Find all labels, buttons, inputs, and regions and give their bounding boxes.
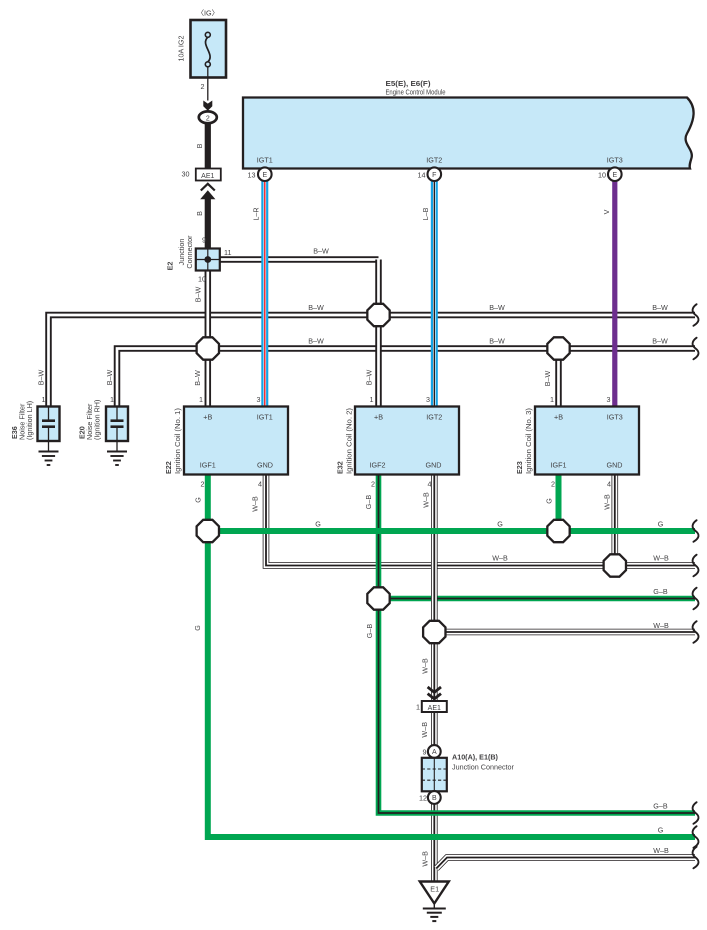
label IGT3 in ECM	[607, 156, 623, 165]
wire L-B from ECM IGT2 to coil	[431, 181, 438, 407]
svg-text:B–W: B–W	[37, 369, 46, 385]
label G row a	[315, 520, 321, 529]
svg-text:A: A	[432, 749, 437, 756]
label IGT3 of E23	[607, 413, 623, 422]
noise filter E20 (Ignition RH)	[106, 407, 128, 466]
junction node on G-B row	[367, 587, 389, 609]
label E1	[430, 885, 439, 894]
junction node on G row at E23 branch	[547, 520, 569, 542]
svg-text:G: G	[545, 498, 554, 504]
svg-text:13: 13	[248, 171, 256, 180]
continuation mark W-B bottom	[693, 847, 699, 869]
wire W-B from E22 GND to continuation right	[266, 475, 695, 566]
label +B of E32	[374, 413, 383, 422]
label B-W row1 b	[489, 303, 505, 312]
pin circle A	[428, 745, 441, 758]
svg-text:G–B: G–B	[364, 495, 373, 510]
label B-W below E2	[194, 286, 203, 302]
svg-text:E2: E2	[166, 262, 175, 271]
svg-text:4: 4	[258, 480, 262, 489]
label pin 9 of E2	[202, 236, 206, 245]
label pin3 E23	[607, 395, 611, 404]
svg-text:9: 9	[423, 748, 427, 757]
label L-R	[252, 207, 261, 220]
junction node on G row at E22 branch	[197, 520, 219, 542]
svg-text:W–B: W–B	[492, 554, 508, 563]
svg-text:9: 9	[202, 236, 206, 245]
svg-text:E1: E1	[430, 885, 439, 894]
label (IG)	[197, 9, 219, 18]
arrow below fuse	[203, 101, 212, 111]
pin circle B	[428, 791, 441, 804]
label B-W pin11 row	[313, 247, 329, 256]
svg-text:B–W: B–W	[652, 337, 668, 346]
label Engine Control Module	[386, 88, 446, 97]
label A10(A), E1(B)	[452, 753, 499, 762]
pin 13 E of ECM	[248, 167, 272, 181]
svg-text:14: 14	[418, 171, 426, 180]
ground E1	[420, 882, 449, 922]
label Ignition Coil No3	[524, 408, 533, 474]
label W-B bottom	[653, 846, 669, 855]
wire B-W junction down to E32 +B	[375, 260, 382, 407]
svg-text:+B: +B	[203, 413, 212, 422]
svg-text:G: G	[315, 520, 321, 529]
svg-text:IGT2: IGT2	[426, 156, 442, 165]
label E23	[515, 461, 524, 474]
wire W-B bottom branch merging into stem	[436, 858, 695, 869]
svg-text:B–W: B–W	[308, 303, 324, 312]
label pin1 E32	[370, 395, 374, 404]
label pin 1 of E20	[110, 395, 114, 404]
svg-text:B: B	[195, 211, 204, 216]
svg-text:IGF1: IGF1	[551, 461, 567, 470]
label pin1 E23	[550, 395, 554, 404]
label G row c	[658, 520, 664, 529]
label V	[602, 209, 611, 214]
svg-text:G: G	[193, 625, 202, 631]
svg-text:B–W: B–W	[105, 369, 114, 385]
svg-text:+B: +B	[374, 413, 383, 422]
label pin2 E32	[371, 480, 375, 489]
label Connector	[185, 235, 194, 269]
label G-B bottom	[653, 802, 668, 811]
label IGF2 of E32	[370, 461, 386, 470]
continuation mark W-B row2	[693, 621, 699, 643]
svg-text:G: G	[658, 826, 664, 835]
svg-text:E22: E22	[164, 461, 173, 474]
ECM E5(E) E6(F) Engine Control Module	[243, 98, 694, 169]
continuation mark G bottom	[693, 826, 699, 848]
svg-text:4: 4	[607, 480, 611, 489]
svg-text:G: G	[658, 520, 664, 529]
wire B-W E2 pin 10 down to E22 +B	[205, 271, 212, 407]
svg-text:B–W: B–W	[489, 337, 505, 346]
svg-text:Junction Connector: Junction Connector	[452, 763, 515, 772]
svg-text:GND: GND	[257, 461, 273, 470]
svg-text:2: 2	[206, 115, 210, 122]
label G row b	[497, 520, 503, 529]
svg-text:W–B: W–B	[420, 722, 429, 738]
wire L-R from ECM IGT1 to coil	[261, 181, 268, 407]
svg-text:B–W: B–W	[313, 247, 329, 256]
label pin2 E22	[201, 480, 205, 489]
fuse 10A IG2	[191, 20, 227, 101]
svg-text:W–B: W–B	[602, 494, 611, 510]
wire W-B stem E32 GND down to ground E1	[431, 475, 438, 883]
svg-text:3: 3	[257, 395, 261, 404]
wire W-B row from junction to continuation right	[434, 629, 695, 636]
svg-text:W–B: W–B	[422, 492, 431, 508]
continuation mark W-B row	[693, 555, 699, 577]
wire B-W row to noise filter E36 and continuation right	[49, 315, 696, 407]
label pin4 E22	[258, 480, 262, 489]
label Ignition RH	[93, 400, 102, 440]
svg-text:1: 1	[550, 395, 554, 404]
continuation mark G row	[693, 520, 699, 542]
label pin4 E32	[428, 480, 432, 489]
label GND of E22	[257, 461, 273, 470]
svg-text:W–B: W–B	[420, 851, 429, 867]
svg-text:E32: E32	[336, 461, 345, 474]
wire W-B from E23 GND down to junction	[611, 475, 618, 566]
junction node on W-B row 2	[423, 621, 445, 643]
label pin3 E32	[426, 395, 430, 404]
connector box AE1 top	[196, 169, 221, 181]
label B-W above E32	[365, 369, 374, 385]
svg-text:IGT3: IGT3	[607, 413, 623, 422]
label W-B below E22	[251, 496, 260, 512]
label GND of E23	[607, 461, 623, 470]
svg-text:Connector: Connector	[185, 235, 194, 269]
svg-text:IGT2: IGT2	[426, 413, 442, 422]
connector box AE1 bottom	[422, 701, 447, 712]
junction node on W-B row at E23 GND	[604, 554, 626, 576]
svg-text:W–B: W–B	[653, 621, 669, 630]
svg-text:W–B: W–B	[653, 846, 669, 855]
continuation mark B-W row2	[693, 338, 699, 360]
noise filter E36 (Ignition LH)	[38, 407, 60, 466]
label G bottom	[658, 826, 664, 835]
svg-text:1: 1	[416, 703, 420, 712]
junction node on B-W row1	[367, 304, 389, 326]
ignition coil E22 (No.1)	[184, 407, 288, 475]
svg-text:10: 10	[598, 171, 606, 180]
wire B-W row to noise filter E20 and continuation right	[117, 349, 695, 407]
label B-W row2 b	[489, 337, 505, 346]
ignition coil E23 (No.3)	[535, 407, 639, 475]
svg-text:1: 1	[42, 395, 46, 404]
label W-B row b	[653, 554, 669, 563]
svg-text:〈IG〉: 〈IG〉	[197, 9, 219, 18]
label W-B below octagon	[421, 658, 430, 674]
label pin4 E23	[607, 480, 611, 489]
svg-text:B–W: B–W	[652, 303, 668, 312]
label 30	[182, 170, 190, 179]
svg-text:2: 2	[371, 480, 375, 489]
svg-text:G: G	[194, 497, 203, 503]
label +B of E23	[554, 413, 563, 422]
wire B vertical fuse to AE1	[205, 123, 211, 169]
svg-text:E23: E23	[515, 461, 524, 474]
svg-text:GND: GND	[607, 461, 623, 470]
label W-B row a	[492, 554, 508, 563]
svg-text:Ignition Coil (No. 2): Ignition Coil (No. 2)	[345, 408, 354, 474]
svg-text:A10(A), E1(B): A10(A), E1(B)	[452, 753, 499, 762]
svg-text:1: 1	[370, 395, 374, 404]
arrow up into AE1	[200, 184, 215, 199]
wire G-B row from junction to continuation right	[379, 596, 696, 602]
svg-text:12: 12	[419, 794, 427, 803]
label Noise Filter LH	[18, 403, 27, 440]
label E22	[164, 461, 173, 474]
wire G from E23 IGF1 to junction	[556, 475, 562, 532]
svg-text:W–B: W–B	[421, 658, 430, 674]
label B-W at E20	[105, 369, 114, 385]
svg-text:Engine Control Module: Engine Control Module	[386, 88, 446, 97]
label E5(E), E6(F)	[386, 79, 432, 88]
svg-text:1: 1	[110, 395, 114, 404]
label B-W row1 a	[308, 303, 324, 312]
label Ignition Coil No1	[173, 408, 182, 474]
label Ignition LH	[25, 401, 34, 440]
junction connector A10/E1	[422, 758, 447, 792]
label Ignition Coil No2	[345, 408, 354, 474]
label E32	[336, 461, 345, 474]
label B wire upper	[195, 143, 204, 148]
svg-text:G–B: G–B	[653, 802, 668, 811]
svg-text:AE1: AE1	[201, 173, 214, 180]
label E2	[166, 262, 175, 271]
label Junction	[177, 239, 186, 266]
svg-text:IGF1: IGF1	[200, 461, 216, 470]
svg-text:B: B	[432, 795, 437, 802]
arrow chevrons into AE1 bottom	[428, 687, 441, 699]
svg-text:4: 4	[428, 480, 432, 489]
junction node on B-W row2 at E23 branch	[547, 337, 569, 359]
label W-B below AE1 bottom	[420, 722, 429, 738]
junction node on B-W row2 at main line	[197, 337, 219, 359]
svg-text:(Ignition LH): (Ignition LH)	[25, 401, 34, 440]
label W-B above E1	[420, 851, 429, 867]
wire G vertical down and right to continuation	[208, 531, 695, 837]
continuation mark G-B bottom	[693, 802, 699, 824]
label pin 1 of E36	[42, 395, 46, 404]
svg-text:E: E	[612, 172, 617, 179]
label +B of E22	[203, 413, 212, 422]
label 10A IG2	[177, 36, 186, 62]
svg-text:AE1: AE1	[428, 705, 441, 712]
label B wire lower	[195, 211, 204, 216]
label G vertical	[193, 625, 202, 631]
label B-W above E22	[193, 370, 202, 386]
svg-text:10A IG2: 10A IG2	[177, 36, 186, 62]
svg-text:G–B: G–B	[365, 624, 374, 639]
svg-text:G: G	[497, 520, 503, 529]
label Noise Filter RH	[85, 403, 94, 440]
label B-W row1 c	[652, 303, 668, 312]
label G-B row	[653, 587, 668, 596]
label IGT1 in ECM	[257, 156, 273, 165]
junction connector E2	[196, 249, 220, 271]
wire G row from junction to continuation right	[208, 528, 695, 534]
label W-B row2	[653, 621, 669, 630]
wire G from E22 IGF1 to junction	[205, 475, 211, 532]
label 12 at circle B	[419, 794, 427, 803]
svg-text:Ignition Coil (No. 1): Ignition Coil (No. 1)	[173, 408, 182, 474]
svg-text:B–W: B–W	[308, 337, 324, 346]
label pin3 E22	[257, 395, 261, 404]
svg-text:E: E	[262, 172, 267, 179]
label E36	[10, 426, 19, 439]
label W-B below E32	[422, 492, 431, 508]
label pin2 E23	[551, 480, 555, 489]
label B-W row2 c	[652, 337, 668, 346]
svg-text:IGT1: IGT1	[257, 156, 273, 165]
svg-text:L–R: L–R	[252, 207, 261, 220]
svg-text:30: 30	[182, 170, 190, 179]
label B-W above E23	[543, 370, 552, 386]
continuation mark G-B row	[693, 588, 699, 610]
label pin 2 of fuse	[201, 82, 205, 91]
wire G-B from E32 IGF2 down and right to continuation	[379, 475, 696, 814]
wire B-W row2 junction down to E23 +B	[555, 349, 562, 407]
ignition coil E32 (No.2)	[355, 407, 459, 475]
label G-B vertical	[365, 624, 374, 639]
svg-text:2: 2	[201, 480, 205, 489]
wire B-W from E2 pin 11 to junction node	[220, 256, 379, 263]
label W-B below E23	[602, 494, 611, 510]
label B-W at E36	[37, 369, 46, 385]
svg-text:V: V	[602, 209, 611, 214]
label IGT1 of E22	[257, 413, 273, 422]
svg-text:IGT3: IGT3	[607, 156, 623, 165]
wire B vertical AE1 to E2 pin 9	[205, 199, 211, 249]
svg-text:B–W: B–W	[365, 369, 374, 385]
label IGF1 of E22	[200, 461, 216, 470]
label IGT2 of E32	[426, 413, 442, 422]
svg-text:3: 3	[426, 395, 430, 404]
svg-text:1: 1	[199, 395, 203, 404]
label IGF1 of E23	[551, 461, 567, 470]
svg-text:2: 2	[551, 480, 555, 489]
label pin 11 of E2	[224, 248, 231, 257]
svg-text:W–B: W–B	[251, 496, 260, 512]
svg-text:W–B: W–B	[653, 554, 669, 563]
label G-B below E32	[364, 495, 373, 510]
wire V from ECM IGT3 to coil	[612, 181, 617, 407]
svg-text:Ignition Coil (No. 3): Ignition Coil (No. 3)	[524, 408, 533, 474]
pin 10 E of ECM	[598, 167, 622, 181]
svg-text:3: 3	[607, 395, 611, 404]
svg-text:B–W: B–W	[489, 303, 505, 312]
label GND of E32	[426, 461, 442, 470]
svg-text:G–B: G–B	[653, 587, 668, 596]
continuation mark B-W row1	[693, 304, 699, 326]
svg-text:IGT1: IGT1	[257, 413, 273, 422]
svg-text:(Ignition RH): (Ignition RH)	[93, 400, 102, 440]
svg-text:B–W: B–W	[543, 370, 552, 386]
svg-text:GND: GND	[426, 461, 442, 470]
svg-text:IGF2: IGF2	[370, 461, 386, 470]
label B-W row2 a	[308, 337, 324, 346]
svg-text:B: B	[195, 143, 204, 148]
connector oval 2	[199, 111, 217, 123]
label 1 at AE1 bottom	[416, 703, 420, 712]
svg-text:B–W: B–W	[194, 286, 203, 302]
label Junction Connector bottom	[452, 763, 515, 772]
svg-text:B–W: B–W	[193, 370, 202, 386]
label 9 at circle A	[423, 748, 427, 757]
label pin 10 of E2	[198, 275, 206, 284]
pin 14 F of ECM	[418, 167, 442, 181]
label IGT2 in ECM	[426, 156, 442, 165]
svg-text:F: F	[432, 172, 436, 179]
label E20	[78, 426, 87, 439]
label L-B	[421, 207, 430, 220]
label G below E23	[545, 498, 554, 504]
svg-text:L–B: L–B	[421, 207, 430, 220]
label G below E22	[194, 497, 203, 503]
svg-text:2: 2	[201, 82, 205, 91]
label pin1 E22	[199, 395, 203, 404]
svg-text:10: 10	[198, 275, 206, 284]
svg-text:11: 11	[224, 248, 231, 257]
svg-text:+B: +B	[554, 413, 563, 422]
